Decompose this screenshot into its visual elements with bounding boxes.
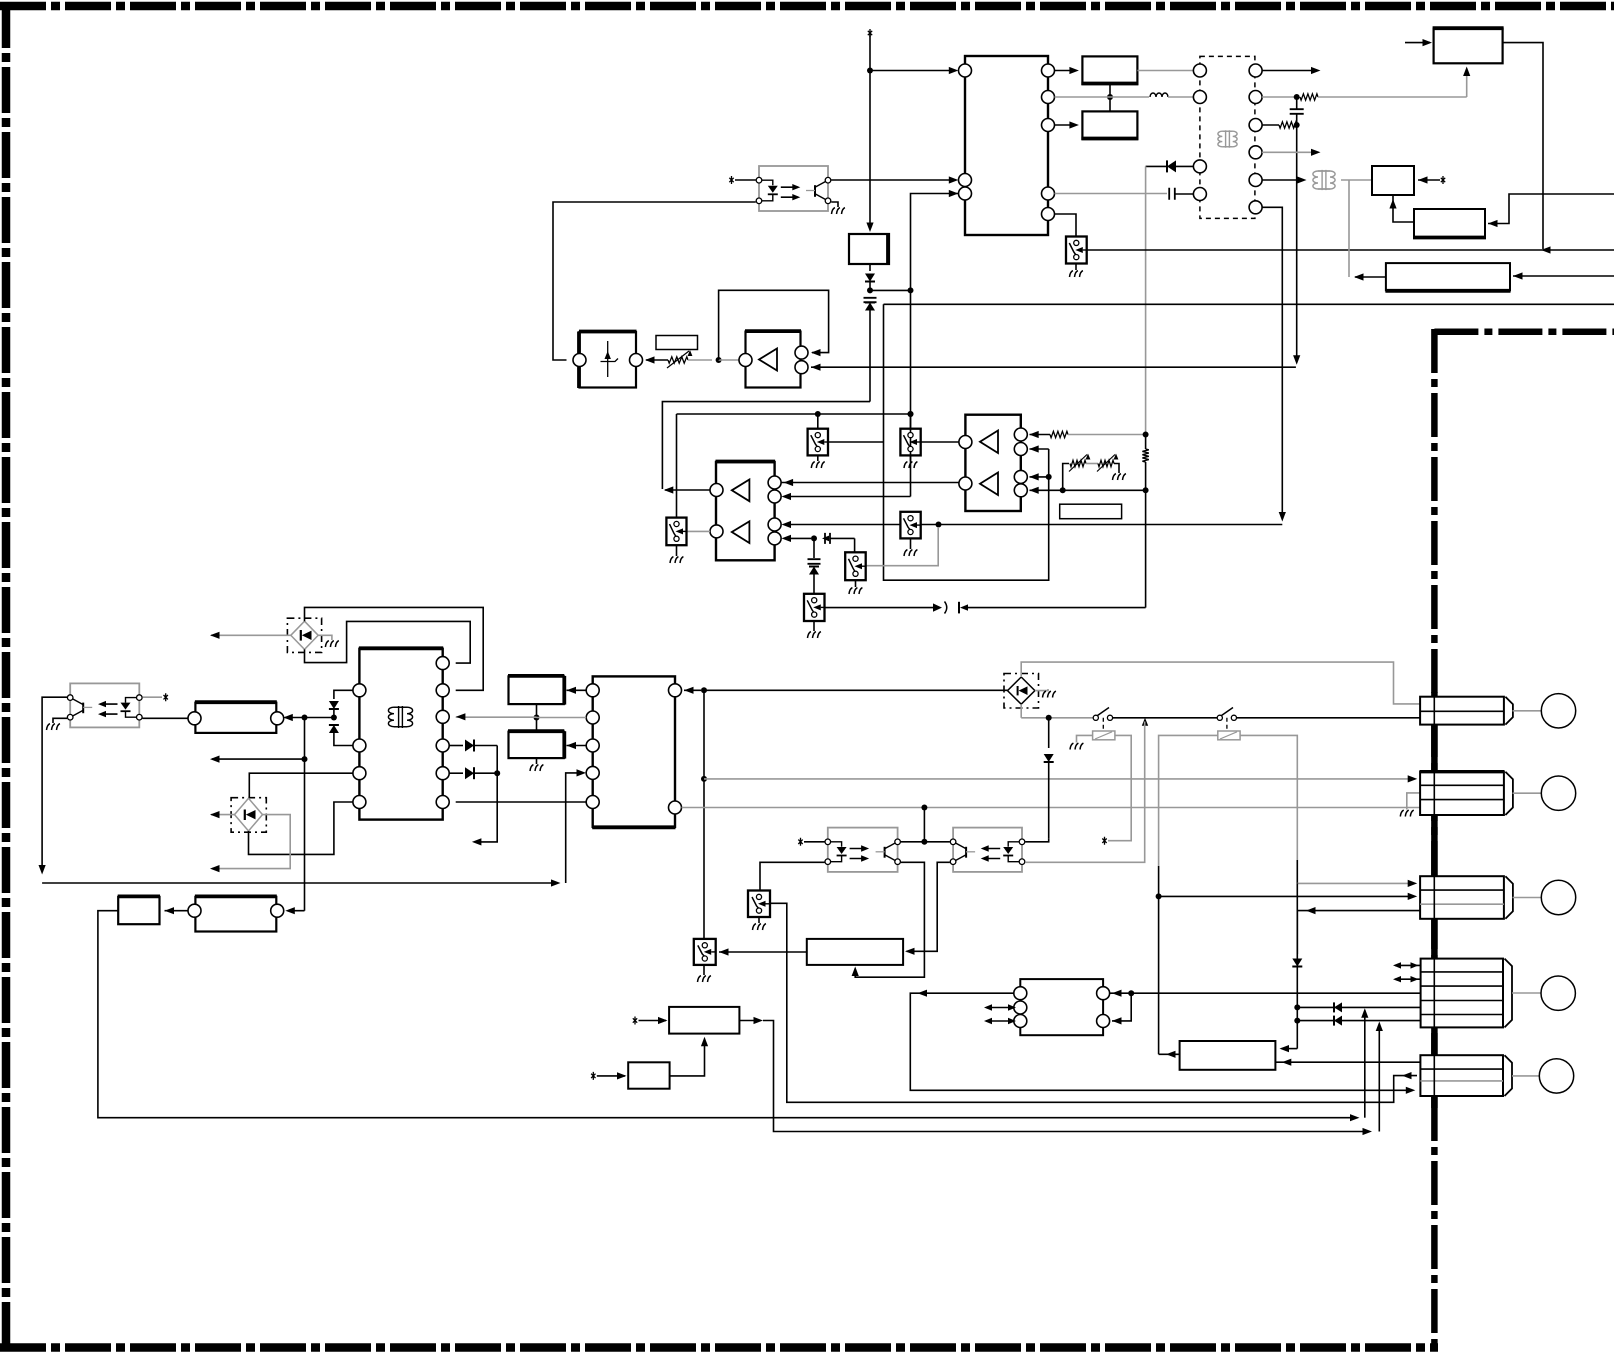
wire IC5 pinL2 to B5 — [567, 745, 587, 747]
block TR1 (tuner) — [1434, 29, 1503, 64]
stub arrow into TR1 — [1405, 42, 1430, 44]
wire junction to T3 pin R3 (gray) — [456, 716, 537, 718]
wire SW7 to U3 L2 (gray) — [687, 530, 711, 532]
ground — [670, 557, 683, 563]
ground — [811, 462, 824, 468]
U3a out pin 1 — [795, 346, 808, 359]
wire B9 up into B8 — [670, 1039, 705, 1076]
U3a out pin 2 — [795, 361, 808, 374]
vertical rail to SW8 — [703, 690, 705, 939]
wire CN3 row3 — [1297, 910, 1420, 912]
U1 pin 1 — [959, 64, 972, 77]
U1 pin 2 — [959, 174, 972, 187]
wire T2 to block MB1 — [1341, 179, 1372, 181]
net line y414 — [677, 413, 911, 415]
CN1 entry row2 handled; CN2 row2 ground stub — [1407, 793, 1420, 810]
IC5 pin R1 — [669, 684, 682, 697]
wire FL3 to FL2 — [165, 910, 189, 912]
connector CN1 — [1420, 697, 1504, 725]
wire PC3 cathode to SW9 — [760, 862, 825, 890]
wire T1 pin8 arrow out (gray) — [1262, 151, 1317, 153]
T1 left pin 1 — [1193, 64, 1206, 77]
vertical node bus x304 — [304, 718, 306, 911]
wire U1 pin6 to B2 — [1055, 124, 1077, 126]
wire bus to U4 pin2 — [1030, 448, 1049, 450]
wire PC1 cathode to shunt regulator — [553, 202, 756, 360]
stub tick to B8 — [639, 1020, 667, 1022]
T3 pin R4 — [436, 739, 449, 752]
T1 right pin 5 — [1249, 64, 1262, 77]
wire to CN3 row2 — [1159, 895, 1415, 897]
node C (T1 pin6 net) — [1262, 96, 1294, 98]
optocoupler PC1 — [759, 166, 828, 211]
page border top (dash-dot) — [0, 2, 1614, 11]
FL1 right pin — [271, 712, 284, 725]
wire PC4 bottom right to relay node (gray) — [1025, 722, 1145, 863]
FL3 right pin — [271, 904, 284, 917]
T3 pin L1 — [353, 684, 366, 697]
power tick PC2 — [164, 693, 168, 701]
T1 right pin 6 — [1249, 91, 1262, 104]
block B1 (reset) — [1082, 56, 1137, 84]
motor M4 (reel) — [1541, 976, 1575, 1010]
connector CN3 — [1420, 876, 1504, 919]
record chain node — [784, 537, 811, 539]
wire PC2 emitter ground — [53, 718, 67, 723]
wire RL2 right down (gray) — [1240, 735, 1297, 860]
U3 pin R4 — [768, 532, 781, 545]
T1 left pin 4 — [1193, 188, 1206, 201]
capacitor C4 with arrow — [822, 536, 829, 542]
inner sheet border horizontal (dash-dot) — [1434, 329, 1614, 336]
resistor R5 (vertical) — [1142, 449, 1148, 462]
long bus line y304 — [884, 303, 1614, 305]
block FL3 (filter) — [195, 897, 276, 932]
diode D11 — [1048, 718, 1050, 748]
wire SW2 to vertical bus — [828, 441, 884, 443]
wire RL2 left down (gray) — [1159, 735, 1218, 866]
wire node B branch to U3 pin — [784, 496, 911, 498]
wire +B supply vertical to IC1 pin1 and regulator — [869, 34, 871, 227]
analog switch SW4 — [900, 512, 920, 539]
ground SW6 — [813, 621, 815, 631]
switching transformer T3 — [359, 649, 442, 820]
IC5 pin L3 — [586, 739, 599, 752]
U3a left pin — [739, 354, 752, 367]
wire B6 left to SW8 — [719, 951, 807, 953]
analog switch SW6 — [804, 594, 825, 621]
ground CN2 — [1400, 810, 1413, 816]
variable resistor VR1 — [646, 359, 668, 361]
wire node to FL1 right pin — [285, 717, 305, 719]
CN4 row4 line with diode D12 — [1297, 1006, 1420, 1008]
gray rail y779 to CN2 — [704, 778, 1415, 780]
ground — [904, 550, 917, 556]
wire PC3 emitter loop to B6 bottom — [855, 862, 924, 977]
wire DR top rail (gray) to CN1 — [1021, 662, 1420, 704]
wire tick to PC3 — [804, 841, 825, 843]
wire LB1 left arrow — [1355, 276, 1386, 278]
U4 pin L2 — [959, 477, 972, 490]
wire D1 bottom to T3 pin R1 — [305, 621, 471, 663]
U1 pin 6 — [1042, 119, 1055, 132]
connector CN5 — [1420, 1055, 1503, 1096]
node R4/D6 — [1143, 432, 1149, 438]
wire node C down to audio line end — [1296, 125, 1298, 361]
power tick PC1 — [729, 176, 733, 184]
U2 zener symbol — [607, 341, 609, 377]
wire SW9 to servo bus b — [770, 903, 1417, 1102]
long feedback line y883 — [42, 882, 557, 884]
T1 left pin 3 — [1193, 160, 1206, 173]
ground — [849, 588, 862, 594]
block B2 (clock) — [1082, 111, 1137, 139]
SW6 output line with interface symbols — [825, 607, 934, 609]
wire B4 junction down — [536, 704, 538, 732]
node R5 out — [1143, 487, 1149, 493]
U2 right pin — [630, 354, 643, 367]
wire MB1 bottom to LB2 — [1393, 195, 1414, 222]
block LB1 (audio output) — [1386, 263, 1510, 290]
wire PC2 collector loop to IC6 — [42, 697, 67, 871]
wire D1 left arrow (gray) — [211, 634, 291, 636]
ground SW4 — [910, 538, 912, 549]
wire SW5 to mute node (gray) — [866, 527, 939, 566]
U2 left pin — [573, 354, 586, 367]
wire RL1 left to ground (gray) — [1077, 735, 1093, 742]
wire T1 pin9 to T2 — [1262, 179, 1303, 181]
half-wave rectifier DR (dash-dot) — [1004, 674, 1039, 709]
T3 pin R6 — [436, 796, 449, 809]
motor M1 (loading) — [1541, 694, 1575, 728]
wire PC3 to PC4 top — [901, 841, 950, 843]
relay coil RL1 — [1102, 718, 1104, 731]
wire node A to node B — [870, 289, 911, 291]
wire bus d up to CN4 row5 — [1378, 1024, 1380, 1132]
wire down to SW5 top — [854, 538, 856, 552]
T3 pin L4 — [353, 796, 366, 809]
wire IC5 R1 node — [684, 689, 701, 691]
ground D1 — [325, 641, 338, 647]
wire IC5 pinL1 to B4 — [567, 689, 587, 691]
main secondary rail to rectifier DR — [704, 689, 1008, 691]
diode D9 — [449, 772, 463, 774]
wire into LB1 right from sheet edge — [1513, 275, 1614, 277]
power tick B9 — [591, 1072, 595, 1080]
diode D6 — [1176, 165, 1193, 167]
U4 pin L1 — [959, 436, 972, 449]
wire node to CN4 row3 — [1131, 992, 1420, 994]
diode D8 — [449, 745, 463, 747]
connector CN2 — [1420, 772, 1504, 815]
page border left (dash-dot) — [2, 2, 11, 1353]
U1 pin 8 — [1042, 208, 1055, 221]
dual op-amp IC U3 — [716, 462, 775, 560]
bus c line — [98, 911, 1357, 1118]
diode D14 — [1296, 911, 1298, 954]
ground VR3 — [1113, 474, 1126, 480]
page border bottom (dash-dot) — [0, 1343, 1438, 1352]
wire LB2 right from sheet edge — [1488, 194, 1614, 224]
ground SW3 — [910, 455, 912, 461]
U4 pin R1 — [1014, 428, 1027, 441]
wire U1 pin5 to T1 (gray with inductor) — [1055, 96, 1150, 98]
wire D10 bottom loop to T3 L4 — [249, 802, 353, 854]
connector CN4 — [1421, 959, 1503, 1028]
wire node up to gray rail — [923, 808, 925, 842]
trimmer network VR2 VR3 — [1063, 464, 1069, 491]
block FL2 (regulator) — [118, 897, 159, 924]
U5 pin L2 — [1014, 1001, 1027, 1014]
vertical bus from y304 — [884, 304, 1049, 580]
wire U1 pin8 to SW1 — [1055, 214, 1077, 237]
IC5 pin L2 — [586, 711, 599, 724]
IC5 pin L1 — [586, 684, 599, 697]
wire T3 L3 to bridge D10 — [249, 773, 353, 797]
ground SW5 — [855, 580, 857, 587]
wire node down to U5 R2 — [1112, 993, 1131, 1021]
capacitor C3 — [1290, 109, 1304, 114]
power tick PC3 — [798, 838, 802, 846]
U4 pin R3 — [1014, 470, 1027, 483]
wire bus c up to CN4 row4 — [1364, 1010, 1366, 1117]
stub arrows U5 L2 — [986, 1007, 1014, 1009]
zener diode D5 — [864, 298, 877, 302]
motor M3 (drum) — [1541, 880, 1575, 914]
wire down to SW2 — [817, 414, 819, 429]
buffer amp U3a — [746, 332, 801, 388]
capacitor C5 / diode D7 chain — [813, 538, 815, 558]
ground RL1 — [1070, 743, 1083, 749]
T3 pin R1 — [436, 657, 449, 670]
ground — [1070, 271, 1083, 277]
power tick MB1 — [1441, 176, 1445, 184]
stub arrows U5 L3 — [986, 1020, 1014, 1022]
bridge rectifier D1 (dash-dot) — [287, 618, 321, 652]
gray rail y807 IC5 R2 to CN2 — [682, 807, 1421, 809]
power tick +B top — [868, 29, 872, 37]
motor M5 (mode) — [1539, 1059, 1573, 1093]
feedback wire loop — [719, 290, 829, 360]
U3 pin R3 — [768, 518, 781, 531]
relay contact S1 — [1093, 715, 1098, 720]
IC U1 (system control) — [965, 56, 1048, 235]
ground SW2 — [817, 455, 819, 461]
wire SW3 to U4 pin — [921, 441, 959, 443]
T1 right pin 9 — [1249, 174, 1262, 187]
wire RL1 right to tick (gray) — [1108, 735, 1131, 840]
T3 pin R3 — [436, 710, 449, 723]
T3 pin L2 — [353, 739, 366, 752]
ground SW7 — [676, 545, 678, 556]
T3 pin L3 — [353, 767, 366, 780]
wire U1 pin4 to B1 — [1055, 70, 1077, 72]
label box L1 — [656, 336, 698, 350]
regulator block IC7 — [849, 234, 889, 264]
power tick RL1 — [1102, 837, 1106, 845]
diode D4 — [869, 264, 871, 271]
switch rail y718 (gray part) — [1021, 717, 1093, 719]
ground B5 — [530, 765, 543, 771]
wire T2 secondary to LB1 (gray) — [1348, 180, 1350, 277]
T1 left pin 2 — [1193, 91, 1206, 104]
CN4 dbl arrow row1 — [1395, 964, 1421, 966]
transformer T2 — [1313, 170, 1335, 190]
servo block B7 — [1180, 1041, 1276, 1070]
wire IC5 L2 to B4 node (gray) — [537, 717, 587, 719]
label box L2 — [1060, 504, 1122, 519]
node VR1 — [716, 357, 722, 363]
ground SW1 — [1075, 264, 1077, 271]
FL3 left pin — [188, 904, 201, 917]
wire U1 pin3 left and down — [911, 194, 959, 497]
U5 pin R1 — [1097, 987, 1110, 1000]
dual diode D2/D3 chain — [334, 690, 353, 699]
wire B8 to bus d — [739, 1020, 760, 1022]
block B4 (error amp) — [509, 676, 564, 704]
mute line y524 — [784, 524, 900, 526]
U5 pin L1 — [1014, 987, 1027, 1000]
wire x1297 to servo block — [1282, 1048, 1298, 1050]
wire D1 top to T3 pin R2 — [305, 607, 484, 690]
wire D1 right to ground (gray) — [318, 635, 332, 640]
FL1 left pin — [188, 712, 201, 725]
CN3 lead (gray) — [1513, 897, 1542, 899]
wire DR right to ground (gray) — [1035, 689, 1048, 691]
IC5 pin L4 — [586, 766, 599, 779]
wire down to SW3 — [910, 414, 912, 429]
T3 pin R5 — [436, 767, 449, 780]
wire RL2 left to servo block — [1159, 1053, 1180, 1055]
wire T1 pin10 audio line down — [1262, 207, 1282, 519]
junction node supply/IC1 — [867, 68, 873, 74]
ground — [698, 976, 711, 982]
U4 pin R2 — [1014, 443, 1027, 456]
analog switch SW7 — [666, 518, 686, 546]
wire into MB1 right — [1418, 179, 1440, 181]
wire zener net down-left to op-amp U3 input — [662, 402, 870, 489]
wire D10 right branch (gray) — [212, 815, 290, 869]
block B8 (sensor amp) — [669, 1007, 739, 1034]
ground DR — [1043, 691, 1056, 697]
wire U3 R1 to U4 L2 — [781, 482, 959, 484]
power control IC5 — [593, 676, 675, 826]
ground — [904, 462, 917, 468]
wire U4 pin R3 — [1030, 476, 1049, 478]
optocoupler PC4 — [953, 828, 1022, 872]
wire D6 net down (gray) — [1145, 166, 1147, 433]
node RL2/CN3 — [1156, 893, 1162, 899]
long sense line y367 — [811, 366, 1296, 368]
op-amp IC U4 — [965, 415, 1020, 511]
U1 pin 4 — [1042, 64, 1055, 77]
wire PC2 LED anode to tick — [143, 696, 163, 698]
ground PC2 — [47, 724, 60, 730]
capacitor C2 — [1055, 193, 1168, 195]
analog switch SW5 — [845, 552, 866, 580]
T3 pin R2 — [436, 684, 449, 697]
optocoupler PC2 — [70, 683, 139, 727]
U3 pin L1 — [710, 484, 723, 497]
T1 right pin 7 — [1249, 119, 1262, 132]
wire U3 L1 arrow to zener net — [665, 489, 710, 491]
wire R5 down to SW6 line — [1145, 490, 1147, 607]
wire PC1 out to U1 pin2 — [831, 179, 956, 181]
wire node to buffer U3a in (gray) — [719, 359, 739, 361]
CN1 lead (gray) — [1513, 710, 1542, 712]
U1 pin 3 — [959, 187, 972, 200]
wire U5 R1 node — [1110, 992, 1129, 994]
motor M2 (capstan) — [1541, 776, 1575, 810]
servo IC U5 — [1020, 979, 1103, 1035]
U3 pin R2 — [768, 490, 781, 503]
analog switch SW2 — [808, 429, 828, 456]
shunt regulator U2 — [580, 332, 637, 388]
wire T1 pin5 arrow out — [1262, 70, 1317, 72]
ground SW8 — [703, 965, 705, 975]
node A — [867, 287, 873, 293]
U3 pin L2 — [710, 525, 723, 538]
wire TR1 to +9V rail — [1503, 43, 1543, 249]
wire SW7 top net — [676, 414, 678, 518]
relay contact S2 — [1217, 715, 1222, 720]
wire diode join to dangling arrow — [475, 746, 497, 842]
wire supply to IC1 pin1 — [870, 70, 956, 72]
analog switch SW1 — [1066, 237, 1087, 264]
CN2 lead (gray) — [1513, 792, 1542, 794]
ground SW9 — [758, 917, 760, 923]
block B6 (servo comparator) — [807, 939, 903, 965]
border solid segments between connectors — [1431, 692, 1438, 700]
wire DR bottom to switch rail — [1020, 704, 1022, 718]
wire PC2 LED cathode to FL1 — [143, 717, 189, 719]
wire R2 to block TR1 — [1466, 69, 1468, 97]
relay coil RL2 — [1226, 718, 1228, 731]
bridge rectifier D10 (dash-dot) — [231, 798, 266, 833]
ground — [753, 924, 766, 930]
U3 pin R1 — [768, 476, 781, 489]
power tick B8 — [633, 1017, 637, 1025]
IC5 pin L5 — [586, 796, 599, 809]
wire diode node to F-block node — [305, 717, 334, 719]
U5 pin R2 — [1097, 1015, 1110, 1028]
U1 pin 7 — [1042, 187, 1055, 200]
node B (U1 pin3 net) — [908, 287, 914, 293]
CN4 lead (gray) — [1512, 992, 1541, 994]
block FL1 (line filter) — [195, 703, 276, 733]
wire U5 L1 loop to CN5 row3 (bus a) — [910, 993, 1412, 1090]
wire U4 pin R4 long — [1030, 489, 1146, 491]
block LB2 (bias osc) — [1414, 209, 1485, 238]
resistor R2 — [1300, 94, 1318, 100]
T1 right pin 8 — [1249, 146, 1262, 159]
inner sheet border vertical (dash-dot) — [1431, 329, 1438, 1351]
wire D11 to PC4 — [1025, 839, 1049, 842]
wire SW1 output long line (+9V rail) — [1087, 249, 1614, 251]
stub tick to B9 — [597, 1075, 625, 1077]
CN4 dbl arrow row2 — [1395, 978, 1421, 980]
T1 right pin 10 — [1249, 201, 1262, 214]
wire to CN3 row1 (gray) — [1297, 882, 1414, 884]
U5 pin L3 — [1014, 1015, 1027, 1028]
wire node bus to FL2 right pin — [288, 910, 305, 912]
wire B1 to T1 pin (gray) — [1137, 70, 1193, 72]
wire IC5 L5 to T3 R6 — [456, 801, 587, 803]
switch rail into CN1 — [1237, 717, 1421, 719]
ground — [808, 632, 821, 638]
optocoupler PC3 — [828, 828, 898, 872]
ground PC1 — [832, 208, 845, 214]
